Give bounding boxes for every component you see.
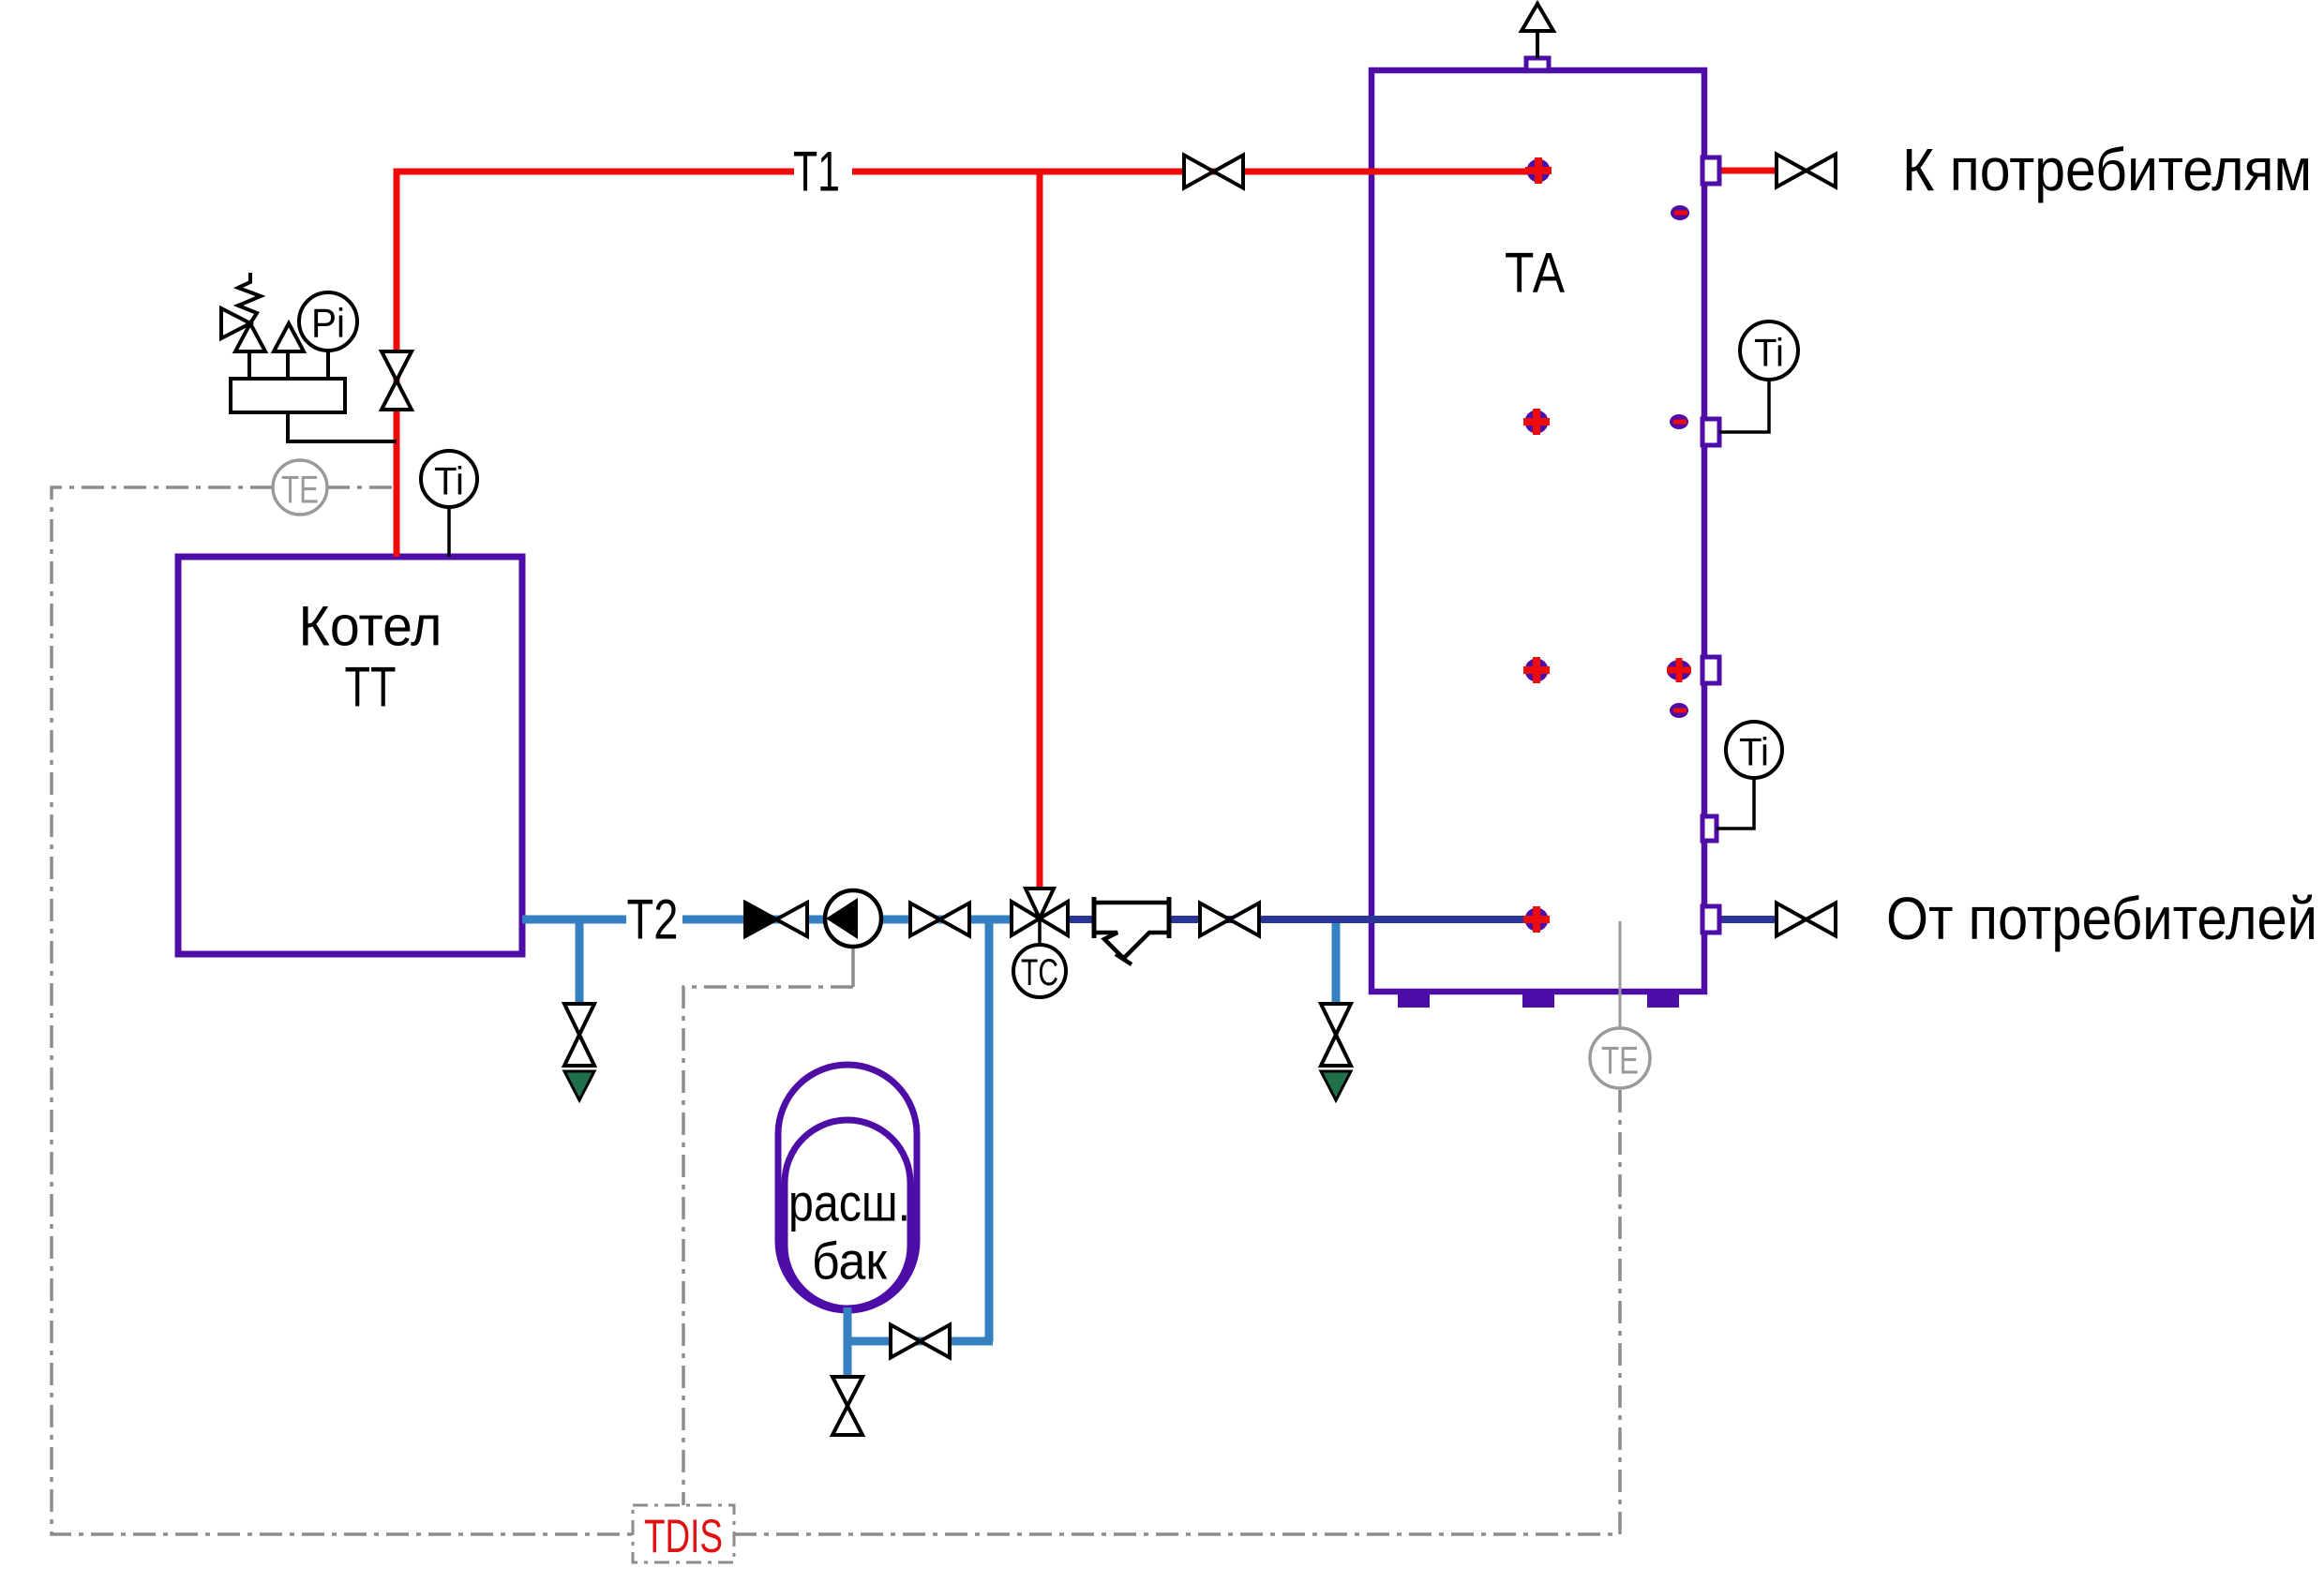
svg-text:ТТ: ТТ <box>345 656 397 719</box>
sensor well lower <box>1670 703 1688 718</box>
tank vent arrow <box>1522 4 1553 31</box>
safety group manifold <box>231 379 345 412</box>
tank vent nozzle <box>1526 58 1549 70</box>
tank nozzle stub T2 out <box>1702 906 1719 933</box>
tank foot 1 <box>1398 992 1430 1008</box>
tank vent pipe <box>1536 31 1539 58</box>
safety group connector to pipe <box>288 412 397 441</box>
pipe T2 to mixing valve <box>682 916 1012 924</box>
signal line pump to TDIS <box>851 947 855 987</box>
strainer <box>1094 897 1169 964</box>
tank wall port at level 3 <box>1667 658 1691 682</box>
thermometer Ti1 tank <box>1719 380 1769 432</box>
pipe T1 branch to mixing valve (red) <box>1037 169 1043 890</box>
thermometer Ti boiler <box>447 508 451 557</box>
check valve on T2 <box>745 903 807 936</box>
tank port T1 <box>1525 157 1552 184</box>
tank port 3 <box>1523 657 1550 683</box>
pipe from consumers stub (navy) <box>1719 916 1777 923</box>
svg-text:Pi: Pi <box>311 301 345 347</box>
valve on T1 riser <box>382 351 412 410</box>
expansion riser pipe <box>985 919 994 1341</box>
svg-text:Ti: Ti <box>434 459 464 503</box>
valve before tank <box>1200 904 1259 936</box>
pipe to consumers stub (red) <box>1719 168 1777 174</box>
expansion tank bottom pipe <box>844 1307 852 1377</box>
safety valve body <box>235 323 265 351</box>
valve to consumers <box>1777 155 1836 187</box>
tank nozzle stub Ti1 <box>1702 419 1719 445</box>
air vent body <box>274 323 304 351</box>
safety valve stem <box>247 351 251 379</box>
svg-text:TDIS: TDIS <box>644 1510 723 1562</box>
tank nozzle stub T1 out <box>1702 157 1719 184</box>
signal line TDIS to TE2 (grey dash-dot) <box>734 1088 1620 1534</box>
safety valve spring <box>238 273 261 323</box>
tank port T2 <box>1523 906 1550 933</box>
gauge Pi <box>299 292 357 351</box>
sensor TE1 (grey) <box>273 460 327 515</box>
three-way mixing valve <box>1012 889 1068 935</box>
svg-text:ТА: ТА <box>1505 242 1565 305</box>
safety valve side port <box>221 308 250 338</box>
svg-text:Т2: Т2 <box>627 889 679 951</box>
thermometer Ti2 tank <box>1717 778 1754 829</box>
sensor well top <box>1671 205 1689 220</box>
pipe return to tank (navy) <box>1069 916 1537 923</box>
valve after pump <box>910 904 969 936</box>
svg-text:Т1: Т1 <box>793 141 840 203</box>
pipe T1 horizontal left of label <box>394 169 795 175</box>
svg-text:От потребителей: От потребителей <box>1886 885 2317 952</box>
svg-text:расш.: расш. <box>788 1173 910 1232</box>
svg-text:Котел: Котел <box>299 595 442 658</box>
drain outlet at tank (green) <box>1321 1071 1351 1100</box>
sensor well middle <box>1670 414 1688 429</box>
tank foot 3 <box>1647 992 1679 1008</box>
svg-text:TE: TE <box>1601 1038 1639 1083</box>
tank nozzle stub level 3 <box>1702 657 1719 683</box>
pipe T1 horizontal to tank port <box>852 169 1538 175</box>
expansion tank расш. бак <box>778 1065 917 1310</box>
signal line TE1 to controller (grey dash-dot) <box>52 487 633 1534</box>
tank nozzle stub Ti2 <box>1702 816 1717 841</box>
accumulator tank TA <box>1372 70 1704 992</box>
drain branch pipe at tank <box>1332 919 1341 1003</box>
drain valve under expansion tank <box>832 1377 862 1435</box>
air vent stem <box>286 351 290 379</box>
signal line TE1 to pipe T1 <box>327 485 397 489</box>
controller TC <box>1038 918 1042 945</box>
svg-text:бак: бак <box>812 1232 887 1291</box>
pipe T1 riser from boiler (red) <box>394 172 400 557</box>
gauge stem <box>326 351 330 379</box>
svg-text:Ti: Ti <box>1739 730 1769 774</box>
tank port 2 <box>1523 409 1550 435</box>
svg-text:TC: TC <box>1021 952 1058 993</box>
pipe T2 from boiler (light blue) <box>522 916 626 924</box>
boiler Котел ТТ <box>178 557 522 954</box>
sensor TE2 tank (grey) <box>1619 921 1622 1028</box>
drain valve at tank <box>1321 1004 1351 1066</box>
svg-text:TE: TE <box>281 468 319 512</box>
valve on T1 line <box>1184 156 1243 188</box>
valve at expansion tank <box>891 1325 950 1358</box>
drain branch pipe at boiler <box>576 919 584 1003</box>
pump <box>825 890 881 947</box>
controller TDIS <box>633 1505 734 1562</box>
valve from consumers <box>1777 904 1836 936</box>
drain outlet at boiler (green) <box>564 1071 594 1100</box>
svg-text:К потребителям: К потребителям <box>1902 136 2312 203</box>
expansion tank membrane <box>785 1120 910 1308</box>
tank foot 2 <box>1522 992 1554 1008</box>
expansion tank connection pipe <box>844 1337 993 1346</box>
drain valve at boiler <box>564 1004 594 1066</box>
svg-text:Ti: Ti <box>1754 331 1784 375</box>
